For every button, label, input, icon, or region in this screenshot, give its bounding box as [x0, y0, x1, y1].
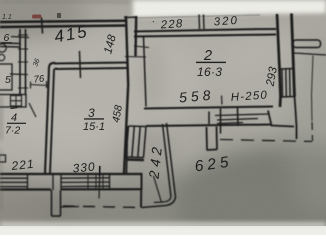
dim tick room3 top wall: [80, 51, 81, 78]
thin outer right line: [312, 56, 314, 122]
room 3 left wall inner: [50, 68, 57, 173]
svg-text:16·3: 16·3: [197, 65, 222, 79]
right thick wall right line: [292, 14, 295, 98]
svg-text:7·2: 7·2: [5, 125, 20, 137]
right wall window hatch: [282, 69, 290, 97]
dim ticks 228/320: [199, 15, 204, 30]
stove counter: [0, 95, 26, 108]
svg-text:6: 6: [4, 32, 10, 44]
handwritten labels: [2, 13, 280, 180]
loggia left edge: [140, 174, 143, 208]
svg-text:228: 228: [159, 18, 184, 32]
room 3 fraction line: [84, 118, 104, 119]
room 3 right wall inner face: [127, 126, 128, 174]
bottom outer wall top line: [0, 173, 143, 175]
pillar below wall: [207, 127, 218, 151]
svg-text:5: 5: [5, 74, 11, 86]
top smudge right: [57, 13, 61, 18]
central wall right line: [134, 16, 137, 56]
line below balcony: [294, 53, 326, 55]
svg-text:3: 3: [88, 106, 95, 120]
central wall top cap: [124, 16, 137, 19]
loggia bottom inner: [154, 197, 171, 203]
stove burners: [11, 96, 22, 107]
tick above room 4 number: [10, 107, 17, 109]
svg-text:15·1: 15·1: [83, 121, 105, 133]
dashed slab line left: [63, 206, 141, 208]
loggia inner slant: [154, 176, 162, 203]
toilet circle: [0, 44, 6, 52]
wall below room 6: [0, 43, 20, 47]
right thick wall left line: [277, 14, 281, 107]
white boundary faint line: [133, 15, 260, 18]
room 2 bottom wall inner lines: [215, 114, 268, 124]
door swing: [29, 103, 36, 117]
window bottom cap thick: [126, 158, 144, 161]
left edge dark sliver: [0, 95, 2, 140]
long tick at x100: [99, 166, 100, 199]
svg-text:330: 330: [72, 160, 96, 176]
sink box room4: [0, 155, 6, 162]
shaft crossbar tick y56: [125, 56, 146, 59]
window room3 to loggia: [126, 126, 146, 158]
room 3 top wall lower line: [56, 68, 128, 69]
porch step line: [61, 206, 80, 209]
white photo corner top-right: [133, 0, 326, 18]
dim tick crossing top wall: [42, 18, 43, 34]
svg-text:320: 320: [213, 15, 239, 29]
room 2 bottom wall top line: [144, 107, 273, 109]
room 2 left wall: [144, 37, 147, 107]
loggia bottom outer: [142, 197, 176, 208]
bathtub: [0, 64, 12, 90]
svg-text:2: 2: [203, 48, 212, 64]
room 3 top wall upper line: [54, 63, 128, 64]
dim tick room6 wall: [11, 37, 29, 38]
room 2 top wall upper line: [134, 29, 276, 32]
bottom wall corner step: [268, 111, 294, 127]
svg-text:221: 221: [10, 157, 35, 173]
svg-text:76: 76: [33, 73, 45, 85]
red mark: [32, 15, 42, 19]
wall hatch ticks: [18, 35, 28, 88]
room 2 bottom wall lower line: [146, 125, 272, 127]
porch below: [52, 190, 61, 216]
room2 loggia dashed bottom: [220, 140, 312, 142]
central wall left line: [124, 16, 128, 174]
room2 loggia dashed right: [311, 122, 314, 141]
dim tick room5: [10, 73, 26, 76]
top edge smudge: [0, 0, 130, 3]
room6/5 divider wall left line: [19, 29, 21, 95]
dim tick 558: [221, 96, 224, 105]
room6/5 divider wall right line: [25, 29, 27, 95]
svg-text:1.1: 1.1: [2, 14, 12, 21]
room 3 left wall outer: [45, 63, 55, 174]
top outer wall lower line: [0, 26, 125, 28]
outer corner right: [295, 97, 297, 140]
svg-text:4: 4: [11, 112, 17, 124]
bottom wall bottom line: [0, 188, 142, 191]
svg-text:558: 558: [178, 86, 215, 105]
svg-text:`: `: [152, 20, 155, 30]
wall hatch vertical ticks: [209, 108, 238, 134]
dim tick corridor: [30, 81, 48, 89]
room 4 fraction line: [7, 123, 26, 124]
room 6 underline: [2, 42, 12, 43]
tick after 330: [99, 166, 100, 176]
bottom wall glazing lines right window: [61, 178, 109, 187]
balcony bar top right: [293, 40, 321, 48]
white strip bottom: [0, 226, 326, 235]
top outer wall upper line: [0, 21, 125, 22]
loggia room3 outer slant double: [163, 123, 176, 197]
bottom wall glazing lines left window: [0, 178, 28, 186]
glazing hatch ticks: [88, 175, 103, 189]
window edge verticals: [28, 174, 110, 190]
room 2 top wall lower line: [134, 35, 276, 37]
room 2 fraction line: [196, 62, 226, 63]
shaft crossbar tick y46: [134, 46, 149, 48]
